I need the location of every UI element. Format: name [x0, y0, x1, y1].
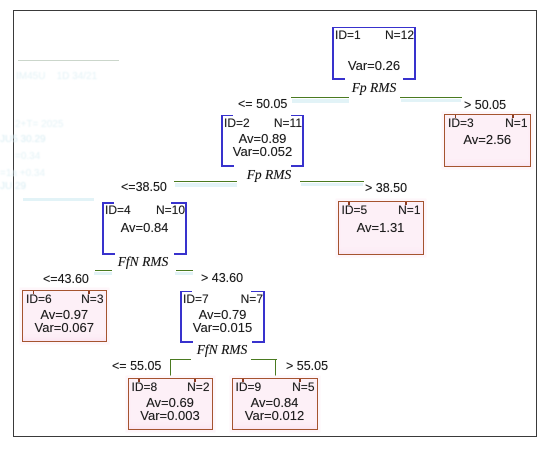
condition <= 55.05 [112, 360, 161, 373]
node ID=9 [232, 378, 318, 431]
node ID=8 [128, 378, 213, 431]
node ID=5 [338, 201, 424, 255]
branch elbow right L4 vertical [275, 359, 276, 378]
ghost cyan line [23, 198, 94, 201]
node ID=2 [221, 115, 304, 168]
branch elbow left L4 vertical [170, 359, 171, 378]
branch line right L2 [300, 181, 364, 182]
split label FfN RMS level 3 [111, 255, 175, 269]
condition <=38.50 [121, 181, 167, 194]
branch line left L1 [291, 97, 349, 98]
node ID=3 [444, 114, 531, 167]
condition > 50.05 [464, 99, 506, 112]
split label Fp RMS level 2 [239, 168, 299, 182]
split label Fp RMS level 1 [344, 81, 404, 95]
ghost text row 4 [0, 181, 26, 192]
node ID=7 [180, 291, 265, 343]
branch line left L2 [174, 181, 237, 182]
node ID=4 [102, 202, 187, 255]
ghost smear [15, 119, 63, 130]
node ID=1 [332, 27, 416, 80]
branch line right L1 [400, 97, 462, 98]
condition > 55.05 [286, 360, 328, 373]
branch line right L3 [176, 270, 193, 271]
ghost smear 2 [15, 151, 40, 162]
node ID=6 [22, 290, 107, 342]
condition > 38.50 [365, 182, 407, 195]
branch elbow left L4 horizontal [170, 359, 191, 360]
condition <=43.60 [43, 273, 89, 286]
condition <= 50.05 [238, 98, 287, 111]
ghost text row 3 [0, 168, 45, 179]
split label FfN RMS level 4 [190, 343, 254, 357]
branch elbow right L4 horizontal [251, 359, 277, 360]
ghost text row 2 [0, 134, 46, 145]
ghost artifact line [18, 60, 119, 61]
condition > 43.60 [201, 272, 243, 285]
branch line left L3 [95, 270, 112, 271]
ghost text row 1 [16, 71, 97, 82]
